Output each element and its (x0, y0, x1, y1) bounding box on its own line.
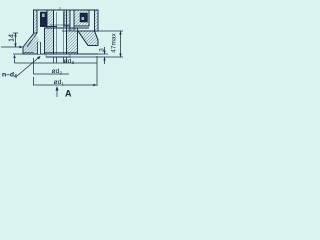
flange right outer slope (95, 31, 99, 46)
dim line d2 (34, 68, 70, 74)
arrowhead 3 upper (down) (103, 51, 105, 55)
3 dim lower arrow shaft (104, 57, 106, 64)
flange left slope inner (27, 33, 37, 47)
flange bottom leader (1, 46, 22, 48)
bolt hole left wall (37, 42, 39, 54)
dim line d1 (34, 77, 96, 85)
right inner ring hatched (64, 10, 70, 26)
ext line right (96, 56, 98, 86)
foot bottom line (23, 52, 34, 54)
svg-text:3: 3 (99, 48, 106, 52)
arrowhead flange leader right (20, 46, 24, 48)
right housing wall hatched (95, 10, 99, 31)
arrowhead 47max bottom (119, 54, 121, 58)
47max top ext (97, 30, 123, 32)
bolt hole interior (38, 42, 40, 54)
3 top ext (98, 53, 108, 55)
top cover line (34, 9, 99, 11)
dim 14 line (15, 33, 17, 47)
arrowhead 47max top (119, 31, 121, 35)
arrowhead d3 up (13, 55, 15, 59)
right seal light notch (82, 17, 85, 20)
svg-text:47max: 47max (111, 32, 118, 52)
arrowhead view A (up) (56, 86, 59, 91)
arrowhead 14 top (14, 33, 16, 37)
bore walls (53, 26, 55, 54)
flange left slope outer (23, 33, 41, 54)
bore chamfer lines (56, 12, 58, 54)
hub boss bottom (46, 56, 70, 58)
arrowhead n-d4 (37, 56, 41, 60)
flange right web hatched (78, 31, 98, 46)
arrowhead 14 bottom (14, 44, 16, 48)
dim 14 extension top (13, 32, 18, 34)
center axis tick (59, 7, 61, 11)
flange right web inner slope (78, 31, 88, 46)
right seal dark blob (80, 13, 88, 22)
left seal light notch (42, 14, 45, 18)
ext line left of part (33, 58, 35, 68)
bore bottom line (50, 24, 70, 26)
flange left hatched (23, 33, 41, 54)
white column lines (69, 10, 71, 31)
flange right web bottom (88, 45, 98, 47)
3 dim upper arrow shaft (104, 47, 106, 54)
ext below bore right inner (63, 57, 65, 63)
right block hatched (74, 10, 89, 26)
dim line d3 (15, 62, 98, 64)
svg-text:A: A (65, 89, 72, 99)
hub right hatched (67, 28, 78, 54)
bore top white walls (53, 10, 55, 26)
background (0, 0, 129, 103)
left housing wall hatched (34, 10, 38, 33)
arrowhead 3 lower (up) (103, 57, 105, 61)
view A arrow shaft (56, 87, 58, 97)
47max bottom ext / 3 bottom ext (70, 56, 123, 58)
ext below bore right outer (66, 57, 68, 63)
dim d3 arrow vertical (14, 56, 16, 64)
n-d4 leader (17, 57, 40, 77)
hub recess line (45, 51, 78, 53)
bolt hole right wall (40, 42, 42, 54)
hub bottom face (41, 53, 98, 55)
arrowhead d1 right (93, 84, 97, 86)
47max dim line (120, 31, 122, 57)
left bearing ring hatched (47, 10, 54, 28)
left seal dark blob (40, 12, 47, 26)
left foot bottom ext (13, 53, 23, 55)
dimension graphics (1, 31, 123, 97)
ext below bore left outer (53, 57, 55, 63)
svg-text:14: 14 (7, 34, 16, 42)
hub left hatched (45, 28, 54, 54)
bottom lines of upper assembly (40, 26, 57, 28)
ext below bore left inner (56, 57, 58, 63)
